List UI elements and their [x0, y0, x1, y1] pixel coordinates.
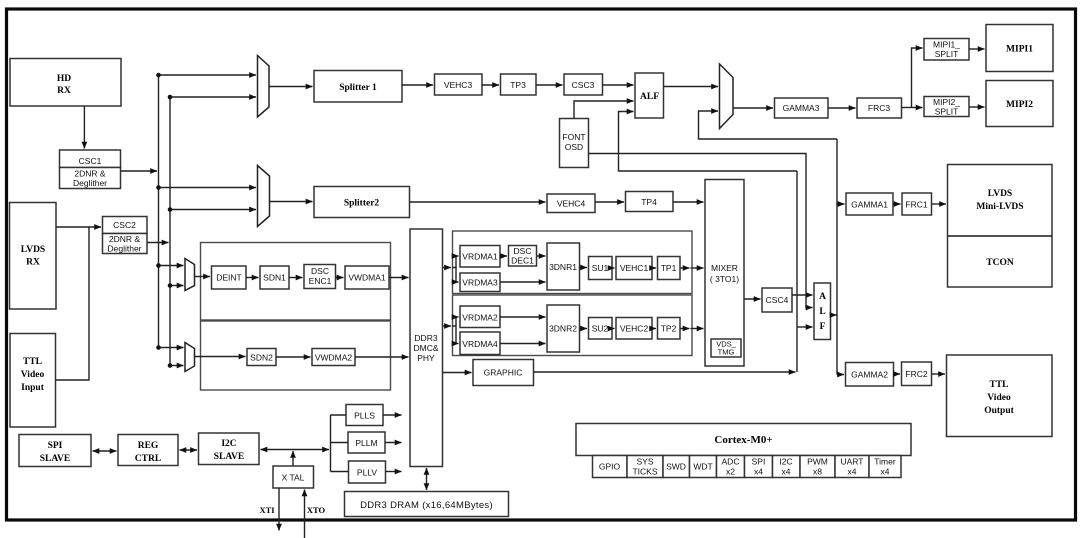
- svg-text:( 3TO1): ( 3TO1): [710, 274, 739, 284]
- svg-text:Output: Output: [984, 406, 1014, 416]
- svg-text:I2C: I2C: [221, 439, 236, 449]
- block PLLV: [349, 461, 386, 483]
- block FONT OSD: [560, 119, 589, 168]
- block GPIO: [593, 456, 628, 478]
- wire 3DNR2 to SU2: [580, 328, 588, 330]
- svg-text:ALF: ALF: [640, 92, 659, 102]
- block TP4: [626, 192, 674, 212]
- wire graphic rail to ALF in3: [619, 112, 798, 172]
- svg-text:Timer: Timer: [874, 457, 896, 467]
- block 3DNR2: [547, 305, 580, 352]
- svg-text:REG: REG: [138, 441, 159, 451]
- svg-text:x2: x2: [726, 467, 735, 477]
- block PLLS: [346, 405, 383, 426]
- node dot rail A mux4: [156, 263, 161, 268]
- block 2DNR & Deglither 1: [60, 168, 121, 189]
- wire DSC ENC1 to VWDMA1: [336, 277, 344, 279]
- svg-text:MIPI2: MIPI2: [1006, 100, 1033, 110]
- svg-text:TP1: TP1: [661, 263, 677, 273]
- block Splitter 1: [314, 71, 402, 103]
- svg-text:F: F: [820, 322, 826, 332]
- block CSC2: [103, 217, 148, 234]
- svg-text:SWD: SWD: [666, 462, 686, 472]
- svg-text:VRDMA3: VRDMA3: [462, 278, 498, 288]
- svg-text:SDN1: SDN1: [263, 273, 286, 283]
- mux M3: [720, 64, 734, 129]
- block VEHC1: [616, 257, 652, 280]
- svg-text:FRC2: FRC2: [905, 369, 927, 379]
- svg-text:VWDMA1: VWDMA1: [348, 273, 386, 283]
- block GAMMA2: [846, 363, 894, 387]
- svg-text:L: L: [819, 307, 825, 317]
- svg-text:DSC: DSC: [514, 246, 532, 256]
- block VRDMA3: [460, 273, 500, 292]
- svg-text:SPLIT: SPLIT: [935, 49, 959, 59]
- block REG CTRL: [118, 435, 178, 466]
- svg-text:CSC2: CSC2: [113, 220, 136, 230]
- wire FRC3 to split junction: [902, 107, 912, 109]
- block FRC3: [857, 98, 902, 118]
- wire rail X to GAMMA1: [837, 203, 845, 205]
- block ALF top: [635, 73, 664, 118]
- wire SU1 to VEHC1: [612, 267, 615, 269]
- svg-text:TTL: TTL: [989, 380, 1008, 390]
- svg-text:WDT: WDT: [693, 462, 712, 472]
- wire PLLV out: [386, 471, 402, 473]
- block DSC ENC1: [304, 265, 336, 289]
- svg-text:VEHC4: VEHC4: [557, 199, 586, 209]
- wire VRDMA4 to 3DNR2: [500, 343, 546, 345]
- block TP2: [658, 318, 681, 340]
- svg-text:FRC3: FRC3: [868, 103, 890, 113]
- wire Splitter2 to VEHC4: [410, 201, 546, 203]
- wire SDN2 to VWDMA2: [276, 356, 311, 358]
- svg-text:LVDS: LVDS: [988, 189, 1012, 199]
- block HD RX: [10, 59, 121, 107]
- svg-text:x4: x4: [754, 467, 763, 477]
- svg-text:DMC&: DMC&: [413, 343, 438, 353]
- mux M1: [258, 56, 270, 118]
- svg-text:Input: Input: [21, 383, 45, 393]
- svg-text:Video: Video: [987, 393, 1011, 403]
- svg-text:x4: x4: [848, 467, 857, 477]
- node dot rail A top: [156, 73, 161, 78]
- svg-text:ADC: ADC: [722, 457, 740, 467]
- wire VWDMA2 to DMC: [355, 356, 409, 358]
- block VDS_TMG: [711, 339, 741, 357]
- svg-text:Cortex-M0+: Cortex-M0+: [714, 434, 772, 446]
- block SPI x4: [745, 456, 773, 478]
- wire graphic rail to ALF2 in3: [797, 326, 813, 328]
- container deint group: [201, 243, 391, 321]
- block TTL Video Output: [947, 355, 1053, 437]
- wire 2DNR1 to rail A: [121, 170, 157, 172]
- wire REG to I2C bidir: [180, 449, 198, 451]
- block VEHC3: [435, 74, 483, 95]
- wire HD RX to CSC1: [83, 106, 85, 149]
- wire GRAPHIC output: [534, 371, 796, 373]
- wire VEHC4 to TP4: [595, 201, 624, 203]
- svg-text:Deglither: Deglither: [107, 244, 141, 254]
- svg-text:GAMMA1: GAMMA1: [851, 200, 888, 210]
- wire PLLS out: [383, 414, 402, 416]
- wire 3DNR1 to SU1: [580, 267, 588, 269]
- wire PLL bracket: [331, 415, 349, 472]
- block Timer x4: [869, 456, 901, 478]
- block CSC4: [762, 288, 792, 312]
- wire group B fan: [453, 317, 457, 344]
- block LVDS Mini-LVDS / TCON: [948, 165, 1053, 288]
- svg-text:Video: Video: [21, 370, 45, 380]
- node dot rail A mux2: [156, 185, 161, 190]
- svg-text:VRDMA2: VRDMA2: [462, 313, 498, 323]
- wire MIPI2_SPLIT to MIPI2: [969, 106, 985, 108]
- block VWDMA2: [312, 349, 355, 366]
- svg-text:MIPI1: MIPI1: [1006, 45, 1033, 55]
- wire PLLM out: [385, 442, 402, 444]
- block WDT: [690, 456, 717, 478]
- svg-text:DEINT: DEINT: [216, 273, 242, 283]
- svg-text:SPLIT: SPLIT: [935, 107, 959, 117]
- block VRDMA2: [460, 306, 500, 328]
- svg-text:x8: x8: [813, 467, 822, 477]
- wire CSC3 to ALF in1: [603, 84, 634, 86]
- svg-text:Splitter 1: Splitter 1: [339, 83, 377, 93]
- wire I2C to PLL bracket bidir: [261, 449, 330, 451]
- svg-text:FONT: FONT: [562, 132, 585, 142]
- svg-text:SPI: SPI: [752, 457, 766, 467]
- wire fan to VRDMA4: [456, 343, 459, 345]
- svg-text:LVDS: LVDS: [21, 245, 45, 255]
- block Splitter2: [314, 187, 410, 218]
- block VEHC2: [616, 318, 652, 340]
- svg-text:FRC1: FRC1: [905, 200, 927, 210]
- block SPI SLAVE: [19, 435, 91, 467]
- block I2C x4: [773, 456, 801, 478]
- wire graphic rail vertical: [796, 171, 798, 372]
- wire VWDMA1 to DMC: [389, 277, 409, 279]
- wire fan to VRDMA3: [456, 281, 459, 283]
- svg-text:x4: x4: [881, 467, 890, 477]
- block FRC1: [902, 193, 932, 215]
- wire DMC to group A: [443, 267, 452, 269]
- wire ALF to mux3: [664, 86, 719, 88]
- wire DMC to DRAM bidir: [426, 468, 428, 490]
- svg-text:RX: RX: [57, 86, 71, 96]
- svg-text:SDN2: SDN2: [250, 353, 273, 363]
- svg-text:I2C: I2C: [779, 457, 792, 467]
- wire group A fan: [453, 256, 457, 282]
- wire MIPI1_SPLIT to MIPI1: [969, 48, 985, 50]
- block 2DNR & Deglither 2: [103, 234, 148, 254]
- svg-text:2DNR &: 2DNR &: [109, 234, 141, 244]
- block 3DNR1: [547, 243, 580, 290]
- container vrdma group B: [453, 295, 693, 356]
- block VWDMA1: [345, 266, 389, 289]
- block GRAPHIC: [473, 360, 534, 386]
- svg-text:VEHC1: VEHC1: [620, 263, 649, 273]
- wire ALF2 out to rail X: [831, 314, 837, 316]
- wire GAMMA2 to FRC2: [894, 373, 901, 375]
- svg-text:TICKS: TICKS: [632, 467, 657, 477]
- wire VEHC3 to TP3: [482, 84, 499, 86]
- wire rail A to mux2: [159, 187, 257, 189]
- node dot rail B mux4: [168, 283, 173, 288]
- node dot rail B mux2: [168, 207, 173, 212]
- wire XTI: [278, 488, 280, 531]
- svg-text:ENC1: ENC1: [309, 276, 332, 286]
- wire TP3 to CSC3: [536, 84, 563, 86]
- block Cortex-M0+: [576, 424, 911, 456]
- svg-text:PLLV: PLLV: [357, 468, 377, 478]
- svg-text:VEHC2: VEHC2: [620, 324, 649, 334]
- svg-text:CSC4: CSC4: [766, 295, 789, 305]
- svg-text:SLAVE: SLAVE: [214, 452, 244, 462]
- wire rail X to GAMMA2: [837, 374, 844, 376]
- wire 2DNR2 to rail B: [147, 242, 169, 244]
- wire GAMMA1 to FRC1: [893, 203, 901, 205]
- block ADC x2: [717, 456, 745, 478]
- wire FRC1 to LVDS: [932, 203, 947, 205]
- wire SDN1 to DSC ENC1: [289, 277, 303, 279]
- svg-text:SPI: SPI: [48, 441, 63, 451]
- block SU2: [589, 318, 613, 340]
- svg-text:X TAL: X TAL: [282, 473, 305, 483]
- wire fan to VRDMA2: [456, 316, 459, 318]
- svg-text:MIPI1_: MIPI1_: [933, 40, 960, 50]
- svg-text:SLAVE: SLAVE: [40, 454, 70, 464]
- svg-text:A: A: [819, 292, 826, 302]
- svg-text:UART: UART: [841, 457, 864, 467]
- wire DMC to GRAPHIC: [443, 372, 472, 374]
- block MIPI2_SPLIT: [924, 97, 969, 117]
- svg-text:PLLS: PLLS: [354, 411, 375, 421]
- wire mux4 to DEINT: [195, 276, 211, 278]
- wire mux3 to GAMMA3: [733, 107, 773, 109]
- wire TTL input riser: [56, 227, 90, 380]
- svg-text:TP3: TP3: [510, 80, 526, 90]
- svg-text:VRDMA4: VRDMA4: [462, 339, 498, 349]
- wire GAMMA3 to FRC3: [828, 107, 856, 109]
- wire SU2 to VEHC2: [612, 328, 615, 330]
- wire mux5 to SDN2: [195, 356, 246, 358]
- svg-text:GAMMA2: GAMMA2: [851, 370, 888, 380]
- container vrdma group A: [453, 231, 693, 294]
- svg-text:TCON: TCON: [986, 258, 1014, 268]
- block SDN1: [260, 266, 289, 289]
- wire VEHC2 to TP2: [652, 328, 656, 330]
- wire rail X top to mux3 in2: [699, 111, 838, 139]
- wire rail A to mux5: [159, 347, 184, 349]
- svg-text:PWM: PWM: [807, 457, 828, 467]
- block MIPI2: [986, 81, 1053, 127]
- block ALF right: [814, 283, 831, 340]
- wire fan to VRDMA1: [456, 255, 459, 257]
- mux M4 small deint: [185, 259, 195, 291]
- block MIPI1_SPLIT: [924, 39, 969, 61]
- block CSC3: [564, 74, 603, 95]
- svg-text:GPIO: GPIO: [599, 462, 621, 472]
- block TTL Video Input: [10, 334, 56, 428]
- svg-text:Splitter2: Splitter2: [344, 199, 380, 209]
- wire junction to MIPI1_SPLIT: [912, 48, 923, 108]
- wire TP4 to MIXER: [673, 201, 704, 203]
- wire rail B vertical: [169, 97, 171, 366]
- svg-text:CSC1: CSC1: [79, 156, 102, 166]
- block PLLM: [348, 432, 385, 453]
- wire mux1 to Splitter1: [269, 86, 313, 88]
- svg-text:DSC: DSC: [311, 266, 329, 276]
- block SYS TICKS: [627, 456, 663, 478]
- block GAMMA3: [775, 98, 829, 118]
- wire MIXER to CSC4: [744, 298, 761, 300]
- svg-text:PLLM: PLLM: [355, 438, 377, 448]
- block TP1: [658, 257, 681, 280]
- block FRC2: [902, 362, 932, 386]
- wire VRDMA1 to DSC DEC1: [500, 255, 507, 257]
- svg-text:RX: RX: [26, 258, 40, 268]
- wire rail A vertical: [158, 75, 160, 348]
- node dot rail B mux5: [168, 363, 173, 368]
- svg-text:SU1: SU1: [592, 263, 609, 273]
- wire TP2 to MIXER: [680, 328, 690, 330]
- block SWD: [663, 456, 690, 478]
- svg-text:MIPI2_: MIPI2_: [933, 97, 960, 107]
- mux M5 small sdn2: [185, 343, 195, 372]
- wire Splitter1 to VEHC3: [402, 84, 433, 86]
- svg-text:Mini-LVDS: Mini-LVDS: [976, 202, 1023, 212]
- wire SPI to REG bidir: [93, 450, 117, 452]
- wire rail X vertical: [836, 139, 838, 375]
- block DSC DEC1: [509, 246, 537, 267]
- svg-text:3DNR2: 3DNR2: [549, 324, 577, 334]
- block VEHC4: [547, 194, 595, 213]
- wire FRC2 to TTL out: [932, 373, 946, 375]
- wire FONT OSD to ALF2 in2: [589, 154, 813, 308]
- wire VRDMA3 to 3DNR1: [500, 281, 546, 283]
- block VRDMA4: [460, 332, 500, 355]
- block SDN2: [247, 349, 276, 366]
- wire rail A to mux1: [159, 74, 257, 76]
- svg-text:XTI: XTI: [259, 505, 275, 515]
- wire XTAL riser: [292, 451, 294, 466]
- node dot rail A mux5: [156, 345, 161, 350]
- wire XTO: [304, 490, 306, 538]
- svg-text:SYS: SYS: [636, 457, 653, 467]
- block MIXER (3TO1): [705, 180, 744, 367]
- svg-text:VWDMA2: VWDMA2: [315, 353, 353, 363]
- wire VEHC1 to TP1: [652, 267, 656, 269]
- block SU1: [589, 257, 613, 280]
- svg-text:CTRL: CTRL: [135, 454, 161, 464]
- wire CSC4 to ALF2 in1: [792, 294, 813, 296]
- wire mux2 to Splitter2: [270, 201, 313, 203]
- block UART x4: [835, 456, 869, 478]
- block DDR3 DRAM: [345, 492, 509, 517]
- block GAMMA1: [846, 193, 893, 215]
- svg-text:DEC1: DEC1: [511, 256, 534, 266]
- wire VRDMA2 to 3DNR2: [500, 316, 546, 318]
- block I2C SLAVE: [199, 433, 260, 465]
- mux M2: [258, 166, 270, 227]
- svg-text:GRAPHIC: GRAPHIC: [484, 368, 523, 378]
- svg-text:HD: HD: [57, 74, 71, 84]
- svg-text:VRDMA1: VRDMA1: [462, 252, 498, 262]
- block TP3: [501, 74, 537, 95]
- block XTAL: [273, 466, 314, 488]
- wire rail B to mux5: [170, 365, 184, 367]
- wire rail B to mux2: [170, 209, 256, 211]
- block VRDMA1: [460, 246, 500, 268]
- container sdn2 group: [201, 321, 391, 390]
- block MIPI1: [986, 25, 1053, 72]
- svg-text:3DNR1: 3DNR1: [549, 262, 577, 272]
- svg-text:DDR3 DRAM (x16,64MBytes): DDR3 DRAM (x16,64MBytes): [360, 500, 493, 511]
- svg-text:PHY: PHY: [417, 353, 435, 363]
- svg-text:TP4: TP4: [641, 197, 657, 207]
- block DEINT: [212, 266, 247, 289]
- wire LVDS RX to CSC2: [56, 226, 101, 228]
- node dot rail B top: [168, 95, 173, 100]
- svg-text:SU2: SU2: [592, 324, 609, 334]
- wire TP1 to MIXER: [680, 267, 690, 269]
- svg-text:MIXER: MIXER: [711, 263, 738, 273]
- block PWM x8: [800, 456, 835, 478]
- svg-text:TTL: TTL: [23, 357, 42, 367]
- svg-text:Deglither: Deglither: [73, 178, 107, 188]
- block DDR3 DMC & PHY: [410, 229, 443, 467]
- svg-text:GAMMA3: GAMMA3: [783, 103, 820, 113]
- wire DMC to group B: [443, 325, 452, 327]
- wire rail B to mux4: [170, 285, 184, 287]
- wire junction to MIPI2_SPLIT: [912, 107, 923, 109]
- svg-text:DDR3: DDR3: [414, 333, 437, 343]
- wire DSC DEC1 to 3DNR1: [537, 255, 546, 257]
- svg-text:OSD: OSD: [565, 142, 583, 152]
- svg-text:CSC3: CSC3: [572, 80, 595, 90]
- wire DEINT to SDN1: [246, 277, 259, 279]
- svg-text:XTO: XTO: [307, 505, 326, 515]
- wire rail A to mux4: [159, 265, 184, 267]
- wire FONT OSD to ALF in2: [574, 101, 634, 119]
- block LVDS RX: [10, 203, 57, 310]
- svg-text:TP2: TP2: [661, 324, 677, 334]
- wire rail B to mux1: [170, 96, 256, 98]
- block CSC1: [60, 150, 121, 168]
- svg-text:TMG: TMG: [718, 348, 735, 357]
- svg-text:2DNR &: 2DNR &: [74, 169, 106, 179]
- svg-text:x4: x4: [782, 467, 791, 477]
- svg-text:VEHC3: VEHC3: [444, 80, 473, 90]
